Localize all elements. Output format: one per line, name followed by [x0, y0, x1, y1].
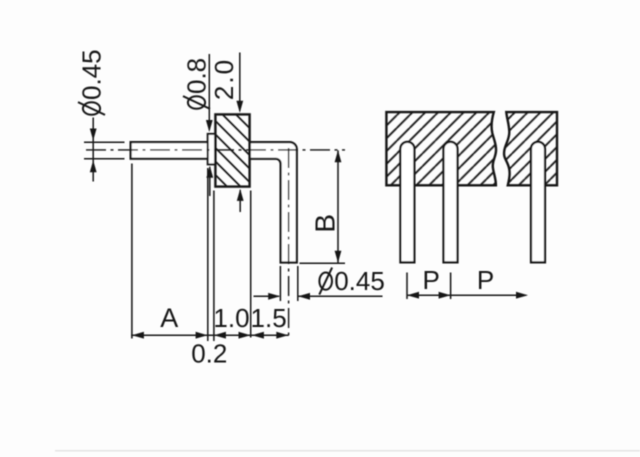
svg-text:A: A	[160, 303, 178, 333]
svg-text:P: P	[423, 265, 440, 295]
svg-text:0.8: 0.8	[181, 58, 211, 94]
svg-text:1.0: 1.0	[213, 303, 249, 333]
svg-text:0.45: 0.45	[76, 49, 106, 100]
svg-text:B: B	[309, 214, 340, 233]
svg-text:1.5: 1.5	[251, 303, 287, 333]
svg-text:2.0: 2.0	[209, 58, 239, 100]
svg-text:0.45: 0.45	[334, 266, 385, 296]
svg-text:0.2: 0.2	[191, 339, 227, 369]
svg-text:P: P	[477, 265, 494, 295]
